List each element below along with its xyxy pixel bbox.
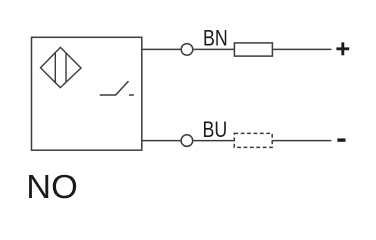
- wire from dashed load to minus terminal: [272, 140, 331, 142]
- load resistor on BN wire: [234, 43, 272, 56]
- svg-text:BN: BN: [203, 26, 228, 51]
- BN terminal circle: [181, 44, 193, 56]
- svg-text:BU: BU: [203, 117, 228, 142]
- minus terminal: [337, 138, 345, 141]
- plus terminal: [336, 42, 349, 55]
- wire BU from sensor to terminal circle: [142, 140, 181, 142]
- optional load (dashed) on BU wire: [234, 133, 272, 147]
- wire from BN circle to load: [194, 48, 235, 50]
- wire from BU circle to dashed load: [194, 140, 235, 142]
- BU terminal circle: [181, 135, 193, 147]
- svg-text:NO: NO: [26, 169, 78, 206]
- sensor symbol inner line right: [65, 53, 67, 82]
- sensor body outline: [32, 37, 142, 150]
- wire BN from sensor to terminal circle: [142, 48, 181, 50]
- proximity sensor symbol (diamond): [41, 47, 82, 87]
- sensor symbol inner line left: [54, 53, 56, 83]
- wire from load to plus terminal: [272, 48, 331, 50]
- NO switch contact: [100, 81, 134, 95]
